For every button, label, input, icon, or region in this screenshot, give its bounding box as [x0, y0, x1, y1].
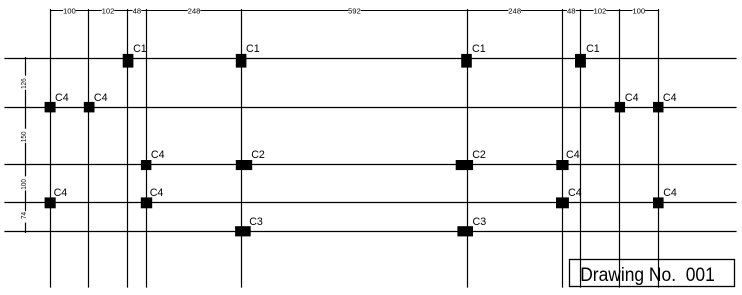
vertical grid line 9: [619, 9, 621, 288]
svg-text:C3: C3: [249, 216, 263, 228]
svg-text:150: 150: [19, 132, 28, 143]
svg-text:C2: C2: [251, 149, 265, 161]
svg-text:592: 592: [348, 7, 361, 16]
column labels row A: [133, 43, 600, 55]
column labels row E: [249, 216, 486, 228]
column C4 square at grid 10/D: [653, 197, 664, 208]
vertical grid line 8: [580, 9, 582, 288]
svg-text:100: 100: [19, 179, 28, 190]
svg-text:102: 102: [593, 7, 606, 16]
vertical grid line 10: [658, 9, 660, 288]
svg-text:248: 248: [188, 7, 201, 16]
vertical grid line 5: [241, 9, 243, 288]
left dimension labels: [19, 78, 28, 219]
left dimension line: [25, 57, 27, 233]
vertical grid line 7: [562, 9, 564, 288]
svg-text:126: 126: [19, 78, 28, 89]
column C4 square at grid 7/C: [556, 160, 568, 170]
svg-text:74: 74: [19, 211, 28, 219]
column labels row D: [54, 187, 677, 199]
svg-text:C3: C3: [473, 216, 487, 228]
column C4 square at grid 10/B: [653, 102, 664, 113]
svg-text:C4: C4: [566, 149, 580, 161]
svg-text:C1: C1: [133, 43, 147, 55]
svg-text:C4: C4: [663, 92, 677, 104]
horizontal grid line row A: [4, 58, 736, 60]
svg-text:C1: C1: [472, 43, 486, 55]
svg-text:C1: C1: [586, 43, 600, 55]
svg-text:C1: C1: [246, 43, 260, 55]
svg-text:C4: C4: [568, 187, 582, 199]
column C1 square at grid 6/A: [461, 54, 472, 68]
svg-text:C4: C4: [54, 187, 68, 199]
column C3 square at grid 5/E: [235, 226, 251, 236]
column C1 square at grid 5/A: [236, 54, 247, 68]
vertical grid line 2: [88, 9, 90, 288]
svg-text:C2: C2: [472, 149, 486, 161]
vertical grid line 3: [127, 9, 129, 288]
svg-text:C4: C4: [55, 92, 69, 104]
svg-text:C4: C4: [625, 92, 639, 104]
column C4 square at grid 7/D: [556, 197, 569, 208]
svg-text:100: 100: [63, 7, 76, 16]
vertical grid line 6: [467, 9, 469, 288]
column C4 square at grid 4/D: [141, 197, 152, 208]
column C4 square at grid 4/C: [141, 160, 152, 170]
svg-text:102: 102: [102, 7, 115, 16]
column C4 square at grid 1/D: [45, 197, 56, 208]
column C4 square at grid 9/B: [615, 102, 625, 113]
svg-text:C4: C4: [150, 187, 164, 199]
column C4 square at grid 1/B: [45, 102, 56, 113]
svg-text:C4: C4: [94, 92, 108, 104]
svg-text:48: 48: [133, 7, 142, 16]
top dimension label masks: [63, 7, 645, 14]
horizontal grid line row B: [4, 107, 736, 109]
svg-text:48: 48: [567, 7, 576, 16]
horizontal grid line row E: [4, 231, 736, 233]
svg-text:248: 248: [508, 7, 521, 16]
title block frame: [570, 260, 735, 287]
top dimension line: [50, 10, 659, 12]
column C3 square at grid 6/E: [457, 226, 473, 236]
horizontal grid line row C: [4, 164, 736, 166]
top dimension labels: [63, 7, 645, 16]
svg-text:100: 100: [632, 7, 645, 16]
horizontal grid line row D: [4, 202, 736, 204]
column labels row C: [151, 149, 580, 161]
column C2 square at grid 5/C: [236, 160, 252, 170]
column C2 square at grid 6/C: [456, 160, 473, 170]
vertical grid line 1: [50, 9, 52, 288]
column C1 square at grid 3/A: [123, 54, 134, 68]
column C1 square at grid 8/A: [575, 54, 586, 68]
left dimension label masks: [20, 76, 27, 223]
svg-text:Drawing No. 001: Drawing No. 001: [580, 264, 715, 286]
column C4 square at grid 2/B: [84, 102, 95, 113]
svg-text:C4: C4: [663, 187, 677, 199]
vertical grid line 4: [146, 9, 148, 288]
svg-text:C4: C4: [151, 149, 165, 161]
column labels row B: [55, 92, 677, 104]
